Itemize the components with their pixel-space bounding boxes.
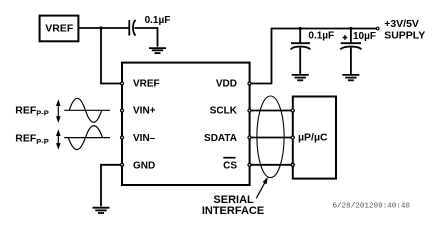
capacitor 10uF polarized (bulk) [340, 29, 361, 75]
sine wave source (VIN+) [64, 98, 110, 122]
svg-text:GND: GND [133, 160, 155, 171]
label REFP-P (VIN-) [15, 133, 49, 146]
wire GND pin to ground [101, 165, 122, 207]
pin circle VREF [121, 82, 124, 85]
sine wave source (VIN-) inverted [64, 126, 110, 150]
svg-text:INTERFACE: INTERFACE [202, 205, 264, 217]
terminal: +3V/5V supply [376, 27, 379, 30]
svg-text:6/28/201209:40:40: 6/28/201209:40:40 [333, 202, 411, 210]
svg-text:VREF: VREF [133, 79, 160, 90]
wire junction down to VREF pin [101, 28, 122, 84]
svg-text:0.1µF: 0.1µF [145, 15, 171, 26]
svg-text:P-P: P-P [36, 109, 49, 118]
node: VREF net junction [99, 26, 102, 29]
svg-text:SUPPLY: SUPPLY [384, 30, 425, 42]
label SERIAL INTERFACE [202, 194, 264, 217]
svg-text:VREF: VREF [45, 23, 74, 35]
microcontroller uP/uC [293, 97, 336, 179]
ground (GND pin) [93, 208, 110, 213]
wire CS [250, 164, 293, 166]
wire capacitor to ground [135, 28, 158, 47]
svg-text:CS: CS [223, 160, 237, 171]
pin circle VDD [248, 82, 251, 85]
pin circle uP SCLK [291, 109, 294, 112]
capacitor 0.1uF (VREF bypass) [129, 20, 135, 36]
polarity plus sign (10uF) [343, 35, 348, 40]
ground (VREF bypass) [149, 48, 166, 53]
pin circle VIN+ [121, 109, 124, 112]
svg-text:VIN+: VIN+ [133, 106, 156, 117]
serial interface highlight ellipse [257, 96, 284, 178]
svg-text:P-P: P-P [36, 137, 49, 146]
wire SDATA [250, 137, 293, 139]
pin CS label with overline [223, 158, 237, 172]
svg-text:µP/µC: µP/µC [298, 131, 328, 143]
node: supply junction at 0.1uF [299, 27, 302, 30]
svg-text:REF: REF [15, 104, 37, 116]
svg-text:SCLK: SCLK [210, 106, 238, 117]
pin circle uP SDATA [291, 136, 294, 139]
svg-text:VDD: VDD [216, 79, 237, 90]
label +3V/5V SUPPLY [384, 18, 425, 42]
svg-text:REF: REF [15, 133, 37, 145]
pin circle CS [248, 163, 251, 166]
ADC IC U1 [122, 63, 250, 185]
svg-text:0.1µF: 0.1µF [308, 31, 334, 42]
svg-text:+3V/5V: +3V/5V [384, 18, 419, 30]
pin circle GND [121, 163, 124, 166]
wire SCLK [250, 110, 293, 112]
svg-text:SDATA: SDATA [204, 133, 237, 144]
arrow to serial interface ellipse [256, 177, 268, 198]
ground (0.1uF supply bypass) [292, 75, 309, 80]
capacitor 0.1uF (supply bypass) [291, 29, 311, 75]
pin circle uP CS [291, 163, 294, 166]
pin circle SDATA [248, 136, 251, 139]
label REFP-P (VIN+) [15, 104, 49, 117]
voltage reference VREF [40, 16, 79, 42]
arrow peak-to-peak (VIN-) [56, 129, 61, 150]
arrow peak-to-peak (VIN+) [56, 99, 61, 123]
wire VREF output to capacitor [79, 27, 129, 29]
node: supply junction at 10uF [349, 27, 352, 30]
pin circle SCLK [248, 109, 251, 112]
pin circle VIN- [121, 136, 124, 139]
svg-text:10µF: 10µF [353, 31, 376, 42]
svg-text:VIN–: VIN– [133, 133, 156, 144]
ground (10uF bulk) [342, 75, 359, 80]
wire VDD pin to supply rail [250, 29, 377, 84]
